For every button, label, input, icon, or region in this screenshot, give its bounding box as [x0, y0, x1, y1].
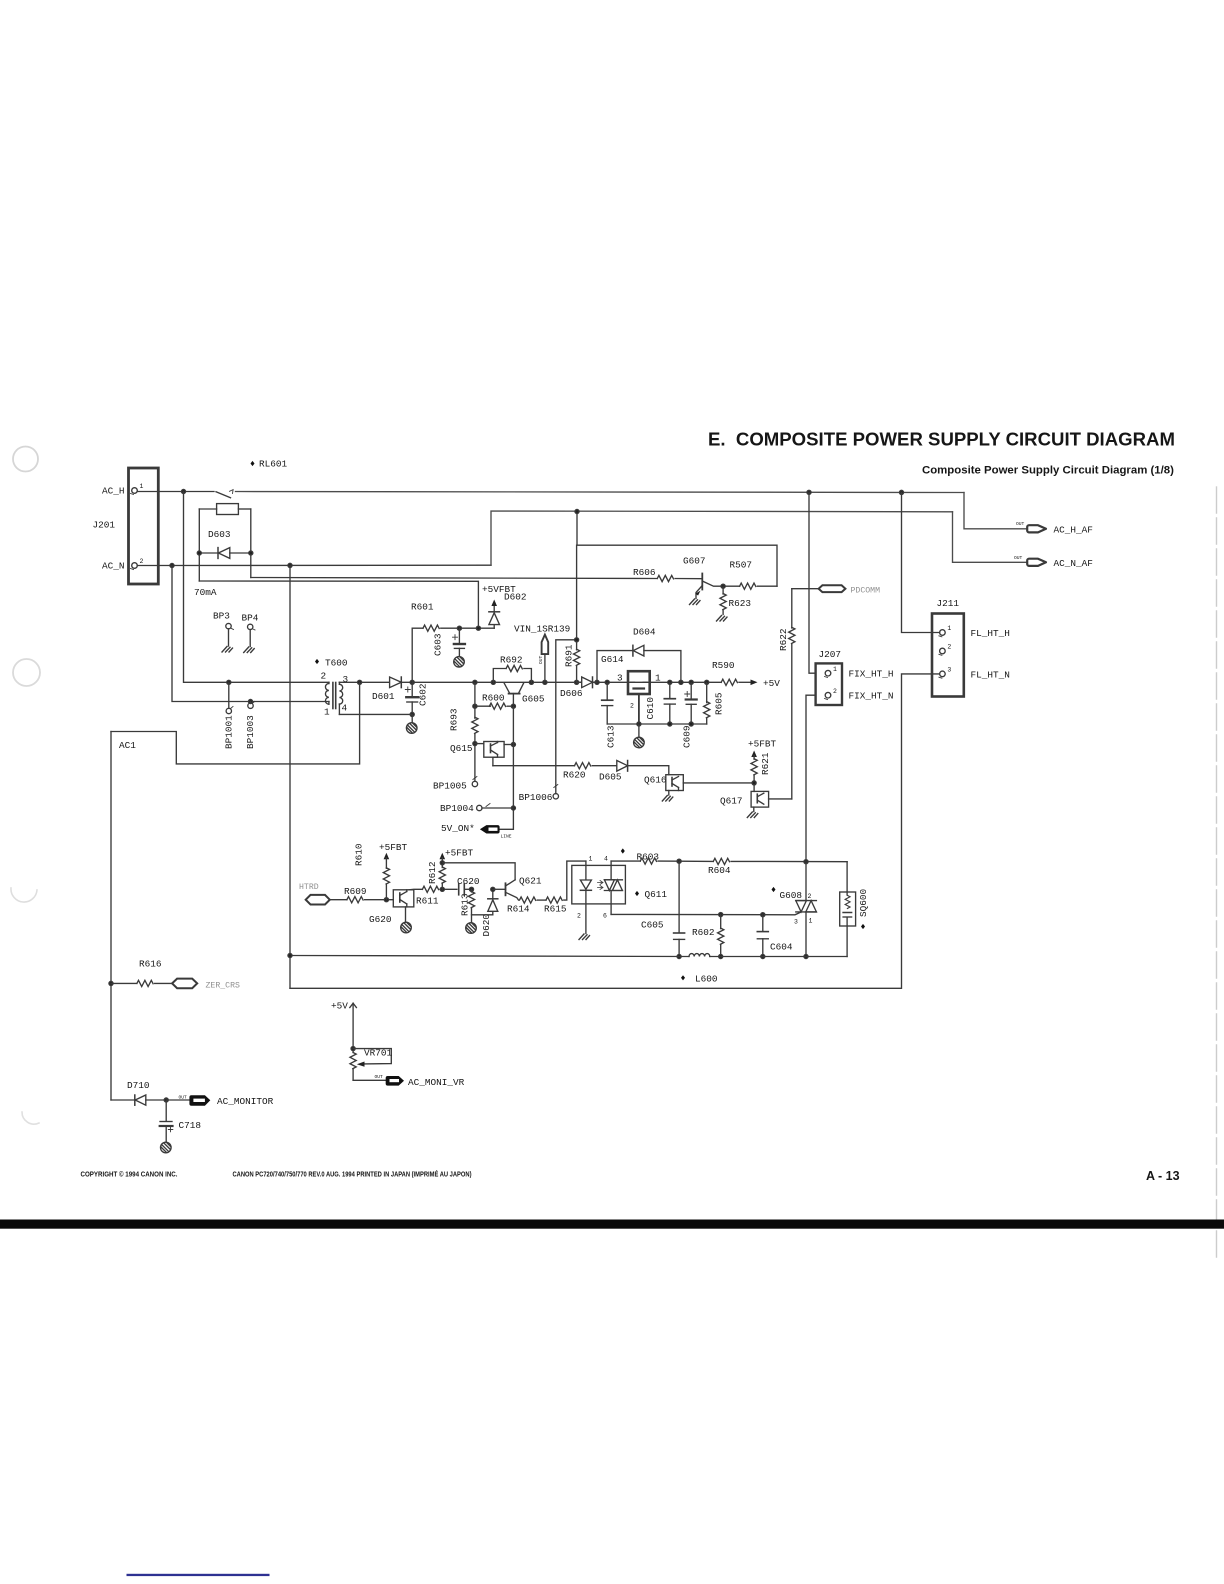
resistor R615: [537, 861, 586, 914]
opto coupler Q611: [572, 848, 668, 933]
diode D605: [599, 761, 669, 783]
ground C603: [454, 657, 465, 668]
svg-text:R507: R507: [730, 560, 753, 571]
svg-text:C718: C718: [179, 1120, 202, 1131]
svg-text:R621: R621: [760, 752, 771, 775]
ground opto LED: [579, 934, 590, 940]
svg-text:G607: G607: [683, 556, 706, 567]
svg-text:R590: R590: [712, 660, 735, 671]
svg-text:+5FBT: +5FBT: [379, 842, 408, 853]
svg-text:2: 2: [577, 913, 581, 920]
ground C602: [406, 714, 417, 733]
wire J211 pin1 feed: [902, 492, 940, 632]
wire AC_H_AF drop: [964, 493, 1028, 529]
test point BP1004: [440, 803, 513, 814]
svg-text:1: 1: [589, 856, 593, 863]
svg-text:PDCOMM: PDCOMM: [851, 587, 881, 596]
svg-text:C605: C605: [641, 920, 664, 931]
ground Q620: [401, 922, 412, 933]
resistor R692: [493, 655, 531, 683]
capacitor C602: [405, 682, 428, 716]
svg-text:2: 2: [630, 703, 634, 710]
svg-text:COPYRIGHT © 1994 CANON INC.: COPYRIGHT © 1994 CANON INC.: [81, 1170, 178, 1179]
ground C718: [161, 1142, 172, 1153]
svg-text:6: 6: [603, 913, 607, 920]
resistor R622: [778, 589, 795, 799]
surge absorber SQ600: [840, 862, 869, 957]
svg-text:Q615: Q615: [450, 743, 473, 754]
ground R613: [466, 923, 477, 934]
svg-text:R604: R604: [708, 865, 731, 876]
net tag AC_MONITOR: [166, 1095, 273, 1108]
net tag 5V_ON*: [441, 823, 512, 840]
svg-text:J207: J207: [819, 649, 842, 660]
svg-text:70mA: 70mA: [194, 587, 217, 598]
svg-text:3: 3: [794, 919, 798, 926]
resistor R611: [409, 886, 457, 906]
net tag AC_MONI_VR: [353, 1074, 465, 1088]
svg-text:FL_HT_H: FL_HT_H: [971, 628, 1010, 639]
resistor R614: [507, 897, 536, 915]
opto transistor Q616: [644, 775, 754, 796]
net tag ZER_CRS: [172, 979, 240, 991]
svg-text:OUT: OUT: [1016, 521, 1025, 527]
resistor R612: [427, 848, 474, 890]
svg-text:R602: R602: [692, 927, 715, 938]
svg-text:R601: R601: [411, 602, 434, 613]
svg-text:1: 1: [809, 918, 813, 925]
svg-text:OUT: OUT: [375, 1074, 384, 1080]
svg-text:Q611: Q611: [645, 889, 668, 900]
svg-text:1: 1: [140, 483, 144, 490]
capacitor C604: [757, 915, 793, 959]
svg-text:R612: R612: [427, 861, 438, 884]
svg-text:AC_MONI_VR: AC_MONI_VR: [408, 1077, 465, 1088]
blue footer rule: [127, 1574, 270, 1576]
svg-text:AC_MONITOR: AC_MONITOR: [217, 1096, 274, 1107]
out arrow AC_N_AF: [1014, 555, 1093, 569]
wire +5FBT to Q621 collector: [442, 863, 515, 880]
svg-text:C613: C613: [606, 725, 617, 748]
svg-text:C603: C603: [433, 633, 444, 656]
ground Q607 emitter: [690, 599, 701, 605]
resistor R609: [330, 886, 394, 903]
svg-text:FIX_HT_N: FIX_HT_N: [849, 691, 894, 702]
svg-text:BP1005: BP1005: [433, 781, 467, 792]
svg-text:2: 2: [808, 893, 812, 900]
wire J207 pin2 to triac net: [806, 695, 815, 862]
svg-text:1: 1: [947, 625, 951, 632]
wire BP1006 feed: [556, 640, 577, 794]
resistor R623: [720, 586, 751, 614]
resistor R507: [721, 560, 777, 590]
capacitor C620: [457, 876, 480, 895]
svg-text:VR701: VR701: [364, 1048, 393, 1059]
svg-text:AC_H: AC_H: [102, 486, 125, 497]
svg-text:R691: R691: [564, 644, 575, 667]
svg-text:BP1001: BP1001: [224, 715, 235, 749]
resistor R604: [679, 858, 847, 876]
inductor L600 rail: [288, 953, 847, 984]
diode D606: [560, 677, 597, 699]
svg-text:CANON PC720/740/750/770 REV.0: CANON PC720/740/750/770 REV.0 AUG. 1994 …: [233, 1170, 472, 1179]
resistor R613: [460, 889, 493, 922]
transistor Q615: [450, 742, 515, 766]
svg-text:AC_N: AC_N: [102, 561, 125, 572]
svg-text:ZER_CRS: ZER_CRS: [206, 982, 240, 991]
svg-text:AC_N_AF: AC_N_AF: [1054, 558, 1093, 569]
connector J201: [93, 468, 159, 584]
wire AC1 sense branch: [111, 682, 360, 764]
svg-text:OUT: OUT: [179, 1095, 188, 1101]
wire T600 pin3 to D601: [339, 680, 389, 684]
svg-text:2: 2: [833, 688, 837, 695]
svg-text:Q616: Q616: [644, 775, 667, 786]
svg-text:AC1: AC1: [119, 740, 136, 751]
wire AC_H from J201 pin1 to relay switch: [137, 489, 214, 493]
resistor R621: [748, 739, 777, 792]
test point BP4: [242, 613, 259, 653]
svg-text:C604: C604: [770, 942, 793, 953]
svg-text:+5FBT: +5FBT: [748, 739, 777, 750]
connector J207: [816, 649, 894, 705]
svg-text:Composite Power Supply Circuit: Composite Power Supply Circuit Diagram (…: [922, 465, 1174, 477]
test point BP1005: [433, 777, 478, 792]
resistor R605: [704, 682, 725, 724]
svg-text:Q621: Q621: [519, 876, 542, 887]
svg-text:R605: R605: [714, 692, 725, 715]
scan edge line right: [1216, 487, 1218, 1262]
svg-text:D605: D605: [599, 772, 622, 783]
diode D603: [197, 529, 253, 558]
svg-text:+5FBT: +5FBT: [445, 848, 474, 859]
svg-text:BP1003: BP1003: [245, 715, 256, 749]
svg-text:R606: R606: [633, 567, 656, 578]
ground R623: [717, 616, 728, 622]
wire AC_H long run to right: [236, 490, 965, 494]
svg-text:BP1004: BP1004: [440, 803, 474, 814]
svg-text:4: 4: [604, 856, 608, 863]
wire relay output to R606 row: [251, 578, 658, 579]
svg-text:R614: R614: [507, 904, 530, 915]
capacitor C603: [433, 628, 465, 656]
wire Q605 base column to 5V_ON: [500, 706, 516, 829]
svg-text:C610: C610: [645, 697, 656, 720]
svg-text:R693: R693: [449, 708, 460, 731]
black separator bar: [0, 1220, 1224, 1229]
wire AC_N drop to lower block: [289, 565, 291, 988]
svg-text:R610: R610: [354, 843, 365, 866]
svg-text:BP3: BP3: [213, 611, 230, 622]
svg-text:G620: G620: [369, 914, 392, 925]
wire T600 pin4 return: [339, 713, 412, 715]
svg-text:E. COMPOSITE POWER SUPPLY CIR: E. COMPOSITE POWER SUPPLY CIRCUIT DIAGRA…: [708, 429, 1175, 450]
triac G608: [772, 862, 817, 959]
svg-text:R616: R616: [139, 959, 162, 970]
transistor Q621: [493, 876, 542, 901]
diode D620: [481, 887, 498, 936]
relay RL601 switch blade: [216, 490, 233, 498]
svg-text:OUT: OUT: [538, 655, 544, 664]
svg-text:R692: R692: [500, 655, 523, 666]
svg-text:1: 1: [655, 673, 661, 684]
svg-text:C602: C602: [418, 683, 429, 706]
svg-text:3: 3: [343, 674, 349, 685]
test point BP1003: [245, 701, 256, 749]
svg-text:C620: C620: [457, 876, 480, 887]
net tag HTRD: [299, 883, 330, 905]
svg-text:RL601: RL601: [259, 459, 288, 470]
capacitor C605: [641, 861, 685, 958]
page hole punch top: [13, 447, 38, 472]
out arrow AC_H_AF: [1016, 521, 1093, 536]
svg-text:3: 3: [947, 666, 951, 673]
svg-text:R620: R620: [563, 770, 586, 781]
diode D601: [372, 677, 414, 702]
diode D604 bypass: [597, 627, 681, 683]
diode D602 with +5VFBT arrow: [482, 584, 527, 628]
svg-text:5V_ON*: 5V_ON*: [441, 823, 475, 834]
resistor R620: [493, 763, 617, 781]
fuse VIN_1SR139: [514, 624, 570, 683]
svg-text:2: 2: [947, 644, 951, 651]
relay RL601 coil: [194, 459, 288, 599]
svg-text:FIX_HT_H: FIX_HT_H: [849, 669, 894, 680]
svg-text:2: 2: [140, 558, 144, 565]
ground Q616: [662, 796, 673, 802]
svg-text:G608: G608: [780, 890, 803, 901]
ground Q617: [747, 812, 758, 818]
svg-text:D606: D606: [560, 688, 583, 699]
svg-text:C609: C609: [682, 725, 693, 748]
svg-text:BP1006: BP1006: [519, 792, 553, 803]
resistor R693: [449, 682, 479, 781]
svg-text:R611: R611: [416, 896, 439, 907]
connector J211: [932, 598, 1010, 697]
svg-text:D710: D710: [127, 1080, 150, 1091]
main +5V unregulated rail: [339, 680, 721, 684]
resistor R616: [111, 959, 172, 987]
net tag PDCOMM: [792, 585, 880, 595]
svg-text:G614: G614: [601, 654, 624, 665]
svg-text:L600: L600: [695, 974, 718, 985]
svg-text:OUT: OUT: [1014, 555, 1023, 561]
svg-text:SQ600: SQ600: [858, 888, 869, 917]
resistor R600: [473, 693, 516, 710]
svg-text:G605: G605: [522, 694, 545, 705]
resistor R606: [633, 567, 702, 582]
wire AC_N_AF drop: [953, 512, 1028, 563]
transistor Q605: [504, 683, 545, 706]
transistor Q617: [720, 791, 792, 811]
resistor R601: [411, 602, 494, 683]
svg-text:D620: D620: [481, 914, 492, 937]
transistor Q620: [369, 890, 414, 925]
diode D710: [111, 1080, 168, 1105]
capacitor C613: [602, 682, 617, 748]
page hole punch lower arc: [11, 888, 37, 902]
svg-text:D604: D604: [633, 627, 656, 638]
resistor R610: [354, 842, 408, 900]
svg-text:LINE: LINE: [501, 834, 512, 840]
svg-text:A - 13: A - 13: [1146, 1169, 1180, 1183]
svg-text:R623: R623: [729, 598, 752, 609]
svg-text:HTRD: HTRD: [299, 883, 319, 892]
svg-text:R615: R615: [544, 904, 567, 915]
svg-text:J201: J201: [93, 520, 116, 531]
svg-text:4: 4: [342, 703, 348, 714]
page hole punch bottom arc: [22, 1112, 39, 1124]
capacitor C718: [160, 1100, 202, 1142]
wire AC_N from J201 pin2: [137, 563, 491, 567]
wire AC1 trunk left: [109, 732, 113, 1101]
svg-text:3: 3: [617, 673, 623, 684]
capacitor C609: [682, 682, 697, 748]
svg-text:FL_HT_N: FL_HT_N: [971, 670, 1010, 681]
resistor R603: [611, 852, 681, 865]
svg-text:1: 1: [833, 666, 837, 673]
svg-text:1: 1: [324, 707, 330, 718]
svg-text:+5V: +5V: [331, 1001, 348, 1012]
svg-text:T600: T600: [325, 658, 348, 669]
svg-text:R600: R600: [482, 693, 505, 704]
svg-text:R609: R609: [344, 886, 367, 897]
test point BP3: [213, 611, 234, 653]
ground regulator: [634, 724, 645, 748]
svg-text:D602: D602: [504, 592, 527, 603]
page hole punch middle: [13, 659, 40, 686]
wire AC_H vertical feed to T600 pin2: [184, 492, 330, 685]
svg-text:J211: J211: [937, 598, 960, 609]
wire D603 anode branch to rectifier node: [199, 581, 478, 628]
resistor R590 with +5V out: [712, 660, 780, 689]
regulator U600: [617, 671, 661, 724]
wire opto pin6 to triac gate: [611, 912, 800, 916]
svg-text:+5V: +5V: [763, 678, 780, 689]
svg-text:R622: R622: [778, 628, 789, 651]
wire AC_N upper run to right: [491, 511, 953, 565]
svg-text:D601: D601: [372, 691, 395, 702]
svg-text:Q617: Q617: [720, 796, 743, 807]
resistor R602: [692, 915, 724, 959]
wire J211 pin3 to lower block: [290, 674, 940, 988]
transistor Q607 feedback stage: [575, 509, 777, 598]
svg-text:BP4: BP4: [242, 613, 259, 624]
test point BP1001: [224, 682, 235, 749]
svg-text:2: 2: [321, 671, 327, 682]
svg-text:D603: D603: [208, 529, 231, 540]
capacitor C610: [645, 682, 675, 724]
resistor R691: [564, 545, 580, 682]
potentiometer VR701: [331, 1001, 393, 1081]
wire J207 pin1 feed: [809, 492, 815, 673]
svg-text:AC_H_AF: AC_H_AF: [1054, 525, 1093, 536]
regulator ground bus: [607, 722, 707, 726]
transformer T600: [315, 658, 349, 718]
test point BP1006: [519, 785, 559, 804]
svg-text:VIN_1SR139: VIN_1SR139: [514, 624, 570, 635]
wire AC_N vertical feed to T600 pin1: [172, 566, 329, 704]
